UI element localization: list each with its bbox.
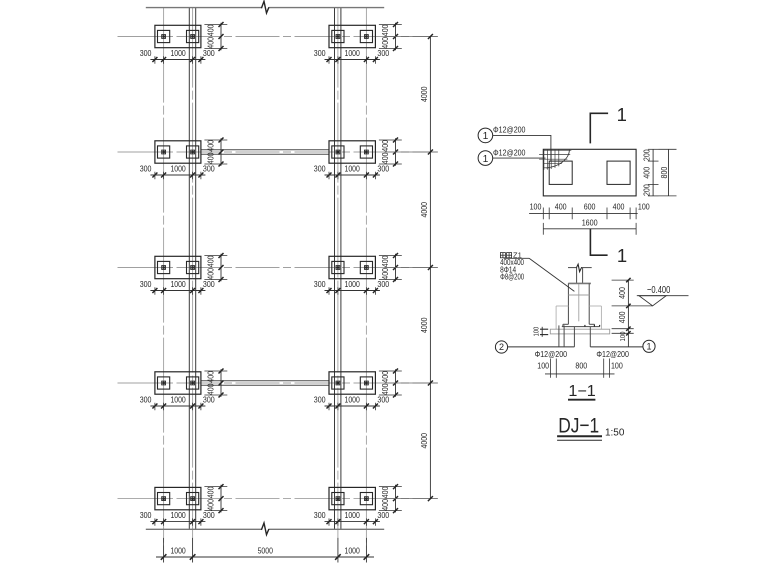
callout leader diagonal — [504, 257, 529, 259]
svg-text:400: 400 — [380, 37, 390, 49]
row 5 centerline — [118, 498, 438, 500]
dimension 200/400/200 detail right — [652, 149, 654, 196]
svg-text:400: 400 — [205, 486, 215, 498]
svg-text:800: 800 — [575, 360, 587, 370]
svg-text:400: 400 — [613, 202, 625, 212]
dimension 100/400/600/400/100 detail — [529, 212, 638, 214]
cup floor rebar tick marks — [584, 325, 586, 327]
svg-text:1:50: 1:50 — [605, 427, 625, 438]
svg-text:1000: 1000 — [345, 48, 361, 58]
svg-text:Φ8@200: Φ8@200 — [500, 272, 525, 281]
top break line with zigzag — [146, 7, 262, 9]
dimension 1600 detail — [543, 228, 636, 230]
svg-text:300: 300 — [140, 48, 152, 58]
row 2 centerline — [118, 151, 438, 153]
section cut mark 1 top — [590, 113, 608, 143]
cup foundation step (light outline) — [556, 305, 568, 307]
svg-text:1: 1 — [483, 154, 489, 165]
grid line axis-D x=366.4 — [365, 8, 367, 563]
svg-text:1000: 1000 — [170, 394, 186, 404]
svg-text:100: 100 — [537, 360, 549, 370]
svg-text:100: 100 — [611, 360, 623, 370]
leader circle 1 (second) with label phi12@200 — [478, 151, 493, 166]
svg-text:400: 400 — [380, 371, 390, 383]
dimension 100 slab left — [541, 327, 543, 337]
section column break line top — [568, 267, 576, 269]
svg-text:300: 300 — [140, 510, 152, 520]
row 4 centerline — [118, 382, 438, 384]
tie beam row 4 — [201, 380, 329, 382]
svg-text:400: 400 — [205, 24, 215, 36]
svg-text:1: 1 — [617, 104, 627, 125]
right wall line 2 — [340, 8, 342, 530]
column base and cup floor — [563, 323, 569, 325]
svg-text:1000: 1000 — [170, 48, 186, 58]
svg-text:400: 400 — [205, 371, 215, 383]
dimension 400/400/100 section right — [627, 280, 629, 347]
svg-text:400: 400 — [617, 311, 627, 323]
svg-text:1000: 1000 — [170, 545, 186, 555]
svg-text:100: 100 — [531, 327, 540, 337]
grid centerline axis-B x=192.6 — [192, 8, 194, 563]
footing F5 left — [155, 487, 201, 509]
svg-text:1000: 1000 — [170, 510, 186, 520]
svg-text:1000: 1000 — [345, 545, 361, 555]
dimension 4000 column right side — [429, 37, 431, 499]
footing F3 right — [329, 256, 375, 278]
svg-text:800: 800 — [659, 166, 669, 178]
svg-text:1000: 1000 — [345, 163, 361, 173]
svg-text:1: 1 — [483, 131, 489, 142]
svg-text:400: 400 — [380, 383, 390, 395]
svg-text:600: 600 — [584, 202, 596, 212]
svg-text:400: 400 — [205, 37, 215, 49]
svg-text:400: 400 — [380, 152, 390, 164]
svg-text:400: 400 — [205, 383, 215, 395]
footing F1 right — [329, 25, 375, 47]
svg-text:400: 400 — [205, 140, 215, 152]
tie beam row 2 — [201, 149, 329, 151]
svg-text:2: 2 — [499, 342, 504, 352]
rebar mesh corner with quarter arc — [539, 150, 571, 170]
svg-text:1−1: 1−1 — [568, 383, 595, 400]
bedding slab outline — [550, 329, 609, 334]
svg-text:300: 300 — [314, 48, 326, 58]
svg-text:400: 400 — [617, 287, 627, 299]
left wall line 1 — [188, 8, 190, 530]
svg-text:200: 200 — [641, 184, 651, 196]
svg-text:4000: 4000 — [419, 433, 429, 449]
svg-text:400: 400 — [380, 499, 390, 511]
footing F3 left — [155, 256, 201, 278]
svg-text:300: 300 — [314, 279, 326, 289]
leader circle 1 with riser — [643, 340, 655, 352]
svg-text:400: 400 — [380, 24, 390, 36]
grid line axis-A x=163.6 — [163, 8, 165, 563]
svg-text:1000: 1000 — [345, 279, 361, 289]
svg-text:1000: 1000 — [345, 394, 361, 404]
svg-text:400: 400 — [380, 255, 390, 267]
section column rebar stubs — [576, 268, 578, 283]
svg-text:400: 400 — [380, 268, 390, 280]
grid centerline axis-C x=337.9 — [337, 8, 339, 563]
dimension 100/800/100 section bottom — [545, 373, 615, 375]
svg-text:1000: 1000 — [170, 163, 186, 173]
svg-text:1: 1 — [646, 341, 651, 351]
svg-text:300: 300 — [140, 163, 152, 173]
svg-text:400: 400 — [205, 268, 215, 280]
detail column B 400x400 — [607, 161, 630, 184]
left wall line 2 — [195, 8, 197, 530]
svg-text:400: 400 — [205, 255, 215, 267]
svg-text:300: 300 — [314, 394, 326, 404]
svg-text:Φ12@200: Φ12@200 — [596, 349, 629, 359]
leader circle 2 with risers — [495, 341, 507, 353]
footing F2 left — [155, 141, 201, 163]
svg-text:DJ−1: DJ−1 — [558, 414, 599, 438]
svg-text:4000: 4000 — [419, 317, 429, 333]
svg-text:400: 400 — [641, 167, 651, 179]
svg-text:400: 400 — [205, 499, 215, 511]
row 3 centerline — [118, 267, 438, 269]
footing F1 left — [155, 25, 201, 47]
right wall line 1 — [334, 8, 336, 530]
svg-text:Φ12@200: Φ12@200 — [493, 125, 526, 135]
row 1 centerline — [118, 36, 438, 38]
detail column A 400x400 — [549, 161, 572, 184]
svg-text:Φ12@200: Φ12@200 — [535, 349, 568, 359]
svg-text:400: 400 — [380, 140, 390, 152]
svg-text:300: 300 — [140, 279, 152, 289]
footing F2 right — [329, 141, 375, 163]
svg-text:400: 400 — [555, 202, 567, 212]
svg-text:5000: 5000 — [258, 545, 274, 555]
svg-text:300: 300 — [140, 394, 152, 404]
svg-text:−0.400: −0.400 — [647, 284, 670, 296]
svg-text:100: 100 — [530, 202, 542, 212]
svg-text:1000: 1000 — [345, 510, 361, 520]
svg-text:300: 300 — [314, 510, 326, 520]
svg-text:1: 1 — [617, 245, 627, 266]
svg-text:4000: 4000 — [419, 86, 429, 102]
footing F4 left — [155, 372, 201, 394]
dimension 800 detail right — [668, 149, 670, 196]
dimension 1000/5000/1000 bottom — [156, 556, 374, 558]
footing F5 right — [329, 487, 375, 509]
svg-text:100: 100 — [638, 202, 650, 212]
svg-text:1600: 1600 — [582, 217, 598, 227]
svg-text:200: 200 — [641, 149, 651, 161]
detail footing outline 1600x800 — [543, 149, 636, 196]
svg-text:4000: 4000 — [419, 202, 429, 218]
svg-text:400: 400 — [380, 486, 390, 498]
section column shaft — [568, 282, 591, 284]
bottom break line with zigzag — [146, 528, 262, 530]
svg-text:1000: 1000 — [170, 279, 186, 289]
footing F4 right — [329, 372, 375, 394]
callout text column Z1 400x400 8phi14 phi8@200 — [500, 253, 511, 258]
svg-text:400: 400 — [205, 152, 215, 164]
svg-text:100: 100 — [618, 332, 627, 342]
svg-text:300: 300 — [314, 163, 326, 173]
svg-text:Φ12@200: Φ12@200 — [493, 147, 526, 157]
section cut mark 1 bottom — [590, 229, 607, 255]
leader circle 1 (top) with label phi12@200 — [478, 128, 493, 143]
